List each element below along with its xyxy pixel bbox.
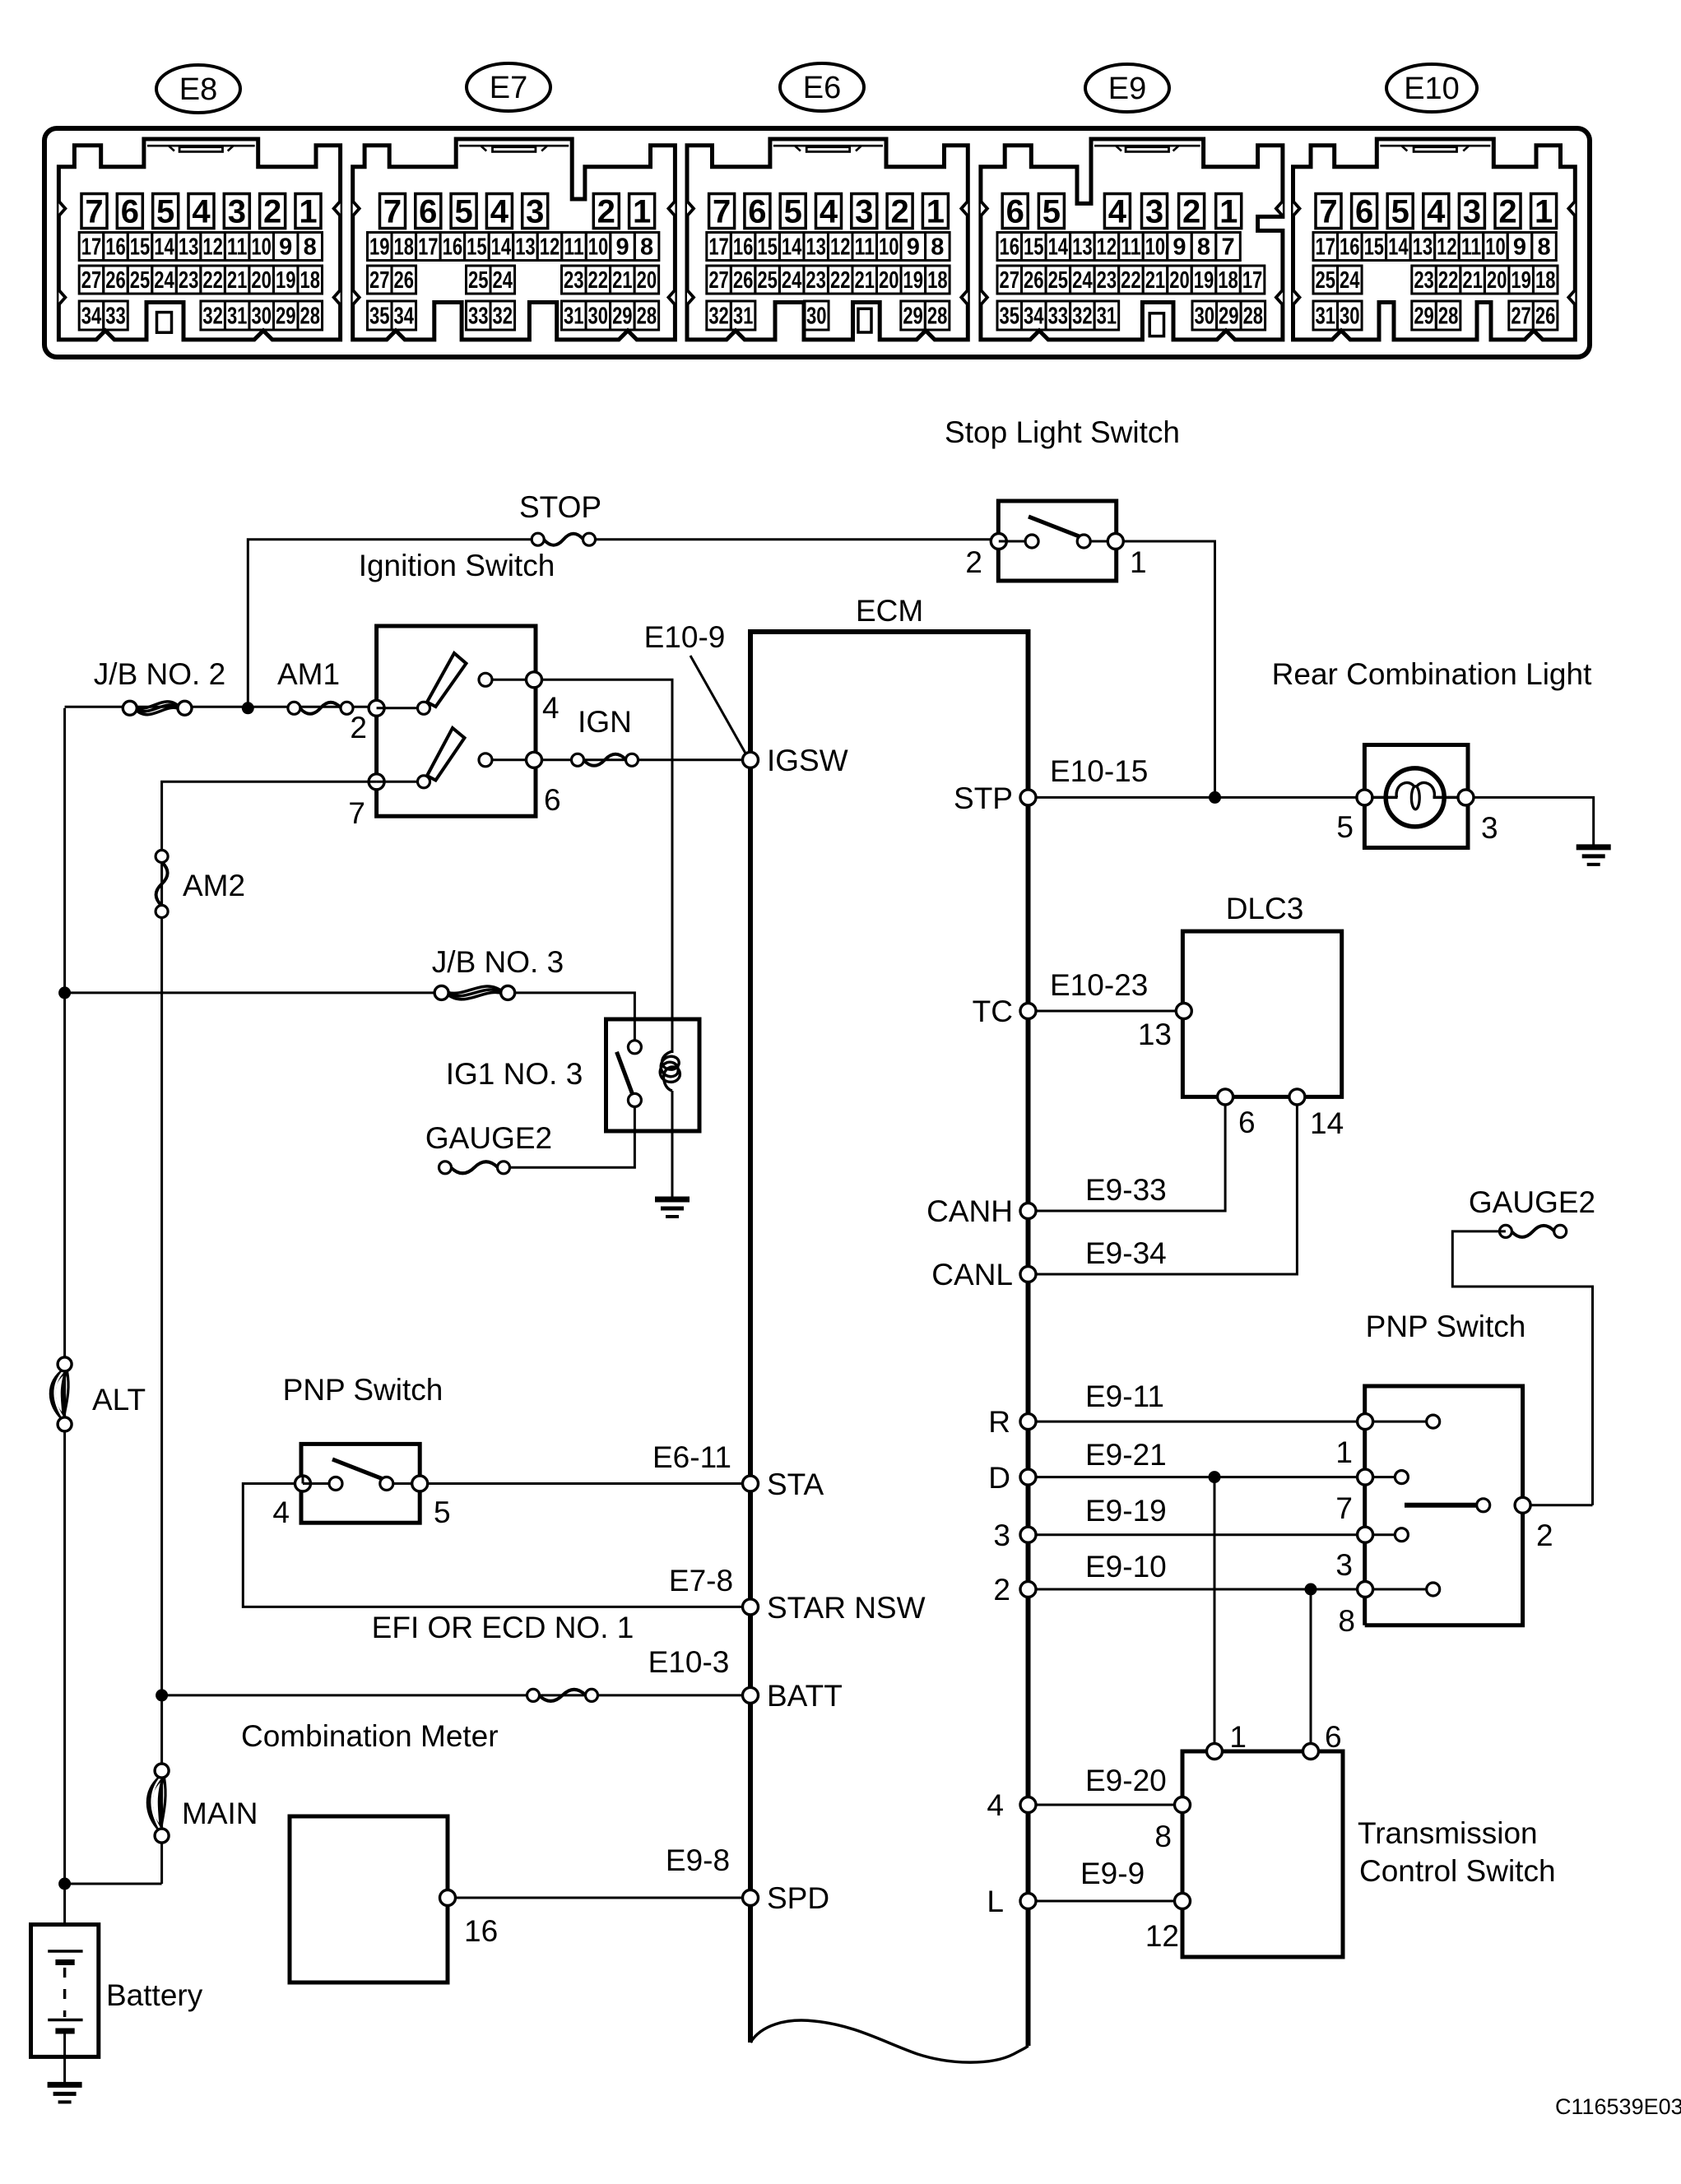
ECM bottom wavy break [750,2020,1029,2062]
svg-text:E10: E10 [1404,72,1460,106]
svg-text:4: 4 [820,194,838,230]
svg-text:CANL: CANL [931,1258,1013,1291]
svg-text:13: 13 [179,234,199,261]
ignition switch box [377,626,536,816]
svg-text:15: 15 [130,234,151,261]
svg-text:23: 23 [179,267,199,294]
svg-text:14: 14 [782,234,802,261]
svg-text:34: 34 [1024,304,1044,330]
svg-text:17: 17 [1316,234,1336,261]
svg-text:2: 2 [1536,1519,1553,1552]
svg-text:17: 17 [81,234,102,261]
DLC3 pin 13 terminal [1176,1004,1191,1019]
svg-text:26: 26 [105,267,126,294]
PNP left inner contact a [329,1477,342,1491]
connector block outer frame [44,128,1590,357]
svg-text:24: 24 [782,267,802,294]
svg-text:21: 21 [1462,267,1483,294]
lamp terminal 3 [1458,790,1474,805]
svg-text:3: 3 [228,194,246,230]
wire MAIN elbow to left feed [65,1883,162,1885]
svg-text:1: 1 [1130,545,1147,579]
svg-text:TC: TC [973,995,1013,1028]
svg-text:30: 30 [1340,304,1360,330]
svg-text:E10-3: E10-3 [648,1645,730,1679]
svg-text:8: 8 [304,234,317,261]
battery bottom lead [63,2031,66,2084]
svg-text:E9-33: E9-33 [1085,1173,1167,1207]
ECM terminal CANH [1020,1203,1036,1219]
ignition switch wire pin2 to pivot [377,707,419,709]
svg-text:13: 13 [515,234,536,261]
wire D [1036,1476,1365,1478]
svg-text:34: 34 [81,304,102,330]
svg-text:3: 3 [1335,1548,1353,1582]
ECM terminal STP [1020,790,1036,805]
svg-text:STAR NSW: STAR NSW [767,1591,926,1625]
svg-text:SPD: SPD [767,1881,829,1915]
svg-text:11: 11 [1461,234,1482,261]
svg-text:15: 15 [757,234,778,261]
DLC3 pin 6 terminal [1218,1089,1233,1105]
ECM terminal BATT [743,1687,759,1703]
svg-text:7: 7 [348,796,365,830]
svg-text:14: 14 [154,234,174,261]
TCS pin 1 terminal [1207,1744,1223,1760]
svg-text:33: 33 [1048,304,1069,330]
ignition switch wire contact to pin6 [492,758,527,761]
svg-text:13: 13 [1413,234,1433,261]
connector E8 pin grid [79,194,322,331]
ECM right edge [1026,632,1031,2046]
svg-text:12: 12 [1097,234,1117,261]
svg-text:16: 16 [105,234,126,261]
svg-text:18: 18 [1535,267,1556,294]
svg-text:30: 30 [588,304,609,330]
TCS pin 8 terminal [1175,1797,1191,1813]
rear combination light box [1364,745,1468,848]
connector E6 outline [687,139,968,340]
svg-text:E7-8: E7-8 [669,1564,733,1597]
svg-text:7: 7 [713,194,731,230]
svg-text:24: 24 [1072,267,1093,294]
pointer line E10-9 to IGSW [690,656,748,758]
PNP right common small contact [1477,1499,1490,1512]
fuse AM1 [288,702,353,714]
svg-text:27: 27 [369,267,390,294]
svg-text:9: 9 [279,234,292,261]
svg-text:7: 7 [1335,1491,1353,1525]
wire CANH [1036,1105,1225,1211]
svg-text:D: D [988,1461,1010,1495]
svg-text:IGN: IGN [578,705,632,739]
svg-text:6: 6 [419,194,437,230]
svg-text:7: 7 [1221,234,1234,261]
svg-text:4: 4 [987,1788,1004,1822]
junction at STOP branch [242,702,254,714]
svg-text:31: 31 [1316,304,1336,330]
junction BATT branch [156,1689,168,1701]
svg-text:5: 5 [454,194,472,230]
svg-text:32: 32 [493,304,513,330]
svg-text:AM1: AM1 [277,657,340,691]
svg-text:E9-21: E9-21 [1085,1438,1167,1472]
PNP right 3 small contact [1395,1528,1408,1542]
svg-text:18: 18 [927,267,948,294]
svg-text:31: 31 [564,304,584,330]
svg-text:27: 27 [81,267,102,294]
svg-text:E9-19: E9-19 [1085,1494,1167,1528]
svg-text:AM2: AM2 [183,869,245,902]
svg-text:GAUGE2: GAUGE2 [1469,1185,1595,1219]
fusible link ALT [52,1357,72,1431]
fusible link J/B NO.3 [434,985,515,999]
svg-text:12: 12 [830,234,851,261]
wire 3 [1036,1533,1365,1536]
PNP left wire 4 to contact [303,1482,329,1485]
wire 4 to TCS pin 8 [1036,1804,1182,1806]
fuse IGN [572,754,639,766]
battery plate long bottom [48,2019,82,2022]
wire STA [428,1482,744,1485]
svg-text:23: 23 [1414,267,1434,294]
svg-text:26: 26 [733,267,754,294]
wire L to TCS pin 12 [1036,1900,1182,1903]
svg-text:14: 14 [1310,1106,1344,1140]
svg-text:6: 6 [121,194,139,230]
ECM terminal IGSW [743,752,759,767]
svg-text:4: 4 [1108,194,1127,230]
svg-text:GAUGE2: GAUGE2 [425,1121,552,1155]
ignition switch pin 2 terminal [369,700,384,716]
svg-text:12: 12 [202,234,223,261]
connector E7 label oval [467,63,550,111]
svg-text:10: 10 [879,234,899,261]
fuse GAUGE2 right [1499,1225,1566,1237]
svg-text:17: 17 [1242,267,1263,294]
PNP right R small contact [1427,1415,1440,1428]
ignition switch contact AM1 pivot [418,702,430,714]
relay switch blade [617,1052,633,1094]
DLC3 box [1182,931,1341,1097]
svg-text:ECM: ECM [856,594,923,628]
wire J/B NO.3 [65,991,442,994]
stop switch inner contact b [1077,535,1090,548]
PNP left terminal 4 [295,1476,311,1491]
svg-text:26: 26 [394,267,415,294]
svg-text:25: 25 [1316,267,1336,294]
stop switch terminal 2 [991,534,1006,549]
battery box [31,1925,99,2057]
svg-text:8: 8 [640,234,653,261]
connector E7 pin grid [368,194,659,331]
svg-text:33: 33 [468,304,489,330]
svg-text:23: 23 [1097,267,1117,294]
svg-text:Combination Meter: Combination Meter [241,1719,499,1753]
PNP right common bar [1405,1503,1476,1508]
svg-text:Control Switch: Control Switch [1359,1854,1556,1888]
svg-text:L: L [987,1885,1004,1918]
wire 2 [1036,1588,1365,1591]
relay IG1 NO.3 box [606,1019,700,1131]
svg-text:30: 30 [1195,304,1215,330]
fusible link MAIN [149,1764,169,1843]
svg-text:21: 21 [612,267,633,294]
svg-text:19: 19 [1194,267,1214,294]
lamp filament right hump [1416,782,1434,797]
svg-text:27: 27 [1000,267,1020,294]
svg-text:ALT: ALT [92,1383,146,1417]
svg-text:16: 16 [1340,234,1360,261]
svg-text:C116539E03: C116539E03 [1555,2094,1681,2119]
svg-text:Battery: Battery [106,1978,203,2012]
svg-text:21: 21 [854,267,875,294]
svg-text:6: 6 [544,783,561,817]
svg-text:2: 2 [350,711,367,744]
svg-text:22: 22 [830,267,851,294]
PNP right 8 contact line [1372,1588,1426,1591]
svg-text:3: 3 [1463,194,1481,230]
svg-text:7: 7 [383,194,402,230]
svg-text:CANH: CANH [926,1194,1013,1228]
ECM terminal SPD [743,1890,759,1906]
connector E10 pin grid [1313,194,1558,331]
svg-text:1: 1 [633,194,651,230]
svg-text:3: 3 [1481,811,1498,845]
svg-text:9: 9 [1513,234,1526,261]
relay switch top contact [628,1041,641,1054]
svg-text:E9-20: E9-20 [1085,1764,1167,1797]
svg-text:20: 20 [879,267,899,294]
PNP left box [301,1444,420,1523]
ECM top edge [748,629,1031,634]
svg-text:4: 4 [192,194,211,230]
svg-text:4: 4 [272,1495,290,1529]
svg-text:35: 35 [369,304,390,330]
svg-text:PNP Switch: PNP Switch [283,1373,443,1407]
svg-text:25: 25 [130,267,151,294]
ECM terminal CANL [1020,1267,1036,1282]
lamp filament left hump [1396,782,1414,797]
svg-text:10: 10 [588,234,609,261]
svg-text:1: 1 [1229,1720,1247,1754]
TCS pin 12 terminal [1175,1894,1191,1909]
wire relay switch to GAUGE2 [504,1106,634,1167]
fuse AM2 [156,851,168,918]
svg-text:13: 13 [1138,1018,1172,1051]
svg-text:26: 26 [1535,304,1556,330]
svg-text:5: 5 [1042,194,1061,230]
svg-text:IGSW: IGSW [767,744,848,777]
junction J/B NO.3 branch [58,986,71,999]
PNP right terminal row R [1358,1414,1373,1430]
svg-text:13: 13 [1072,234,1093,261]
ECM terminal D [1020,1469,1036,1485]
battery plate short bottom [55,2029,74,2034]
svg-text:28: 28 [1243,304,1264,330]
svg-text:29: 29 [1414,304,1434,330]
svg-text:8: 8 [1338,1604,1355,1638]
ignition switch upper contact small circle [479,673,492,686]
wire pin2 to GAUGE2 riser [1530,1504,1593,1506]
PNP right D contact line [1372,1476,1395,1478]
svg-text:9: 9 [615,234,629,261]
relay coil wire down to ground [671,1091,674,1199]
svg-text:1: 1 [1335,1435,1353,1469]
ignition switch blade upper [427,653,467,707]
wire GAUGE2 to PNP pin 2 [1452,1231,1592,1505]
svg-text:6: 6 [1238,1106,1256,1139]
connector E9 label oval [1085,64,1169,112]
svg-text:35: 35 [1000,304,1020,330]
wire 2 to TCS pin 6 [1310,1589,1312,1751]
connector E9 pin grid [997,194,1265,331]
svg-text:20: 20 [1169,267,1190,294]
svg-text:E9-34: E9-34 [1085,1236,1167,1270]
svg-text:EFI OR ECD NO. 1: EFI OR ECD NO. 1 [372,1611,634,1644]
svg-text:20: 20 [251,267,272,294]
svg-text:4: 4 [490,194,509,230]
svg-text:E6-11: E6-11 [652,1440,731,1474]
svg-text:8: 8 [1197,234,1210,261]
svg-text:E9-11: E9-11 [1085,1379,1164,1413]
svg-text:11: 11 [854,234,875,261]
wire left feed vertical [63,708,66,1926]
wire pin4 to coil vertical [542,679,673,1053]
lamp terminal 5 [1357,790,1372,805]
svg-text:17: 17 [418,234,439,261]
PNP left blade [332,1459,385,1480]
svg-text:7: 7 [1319,194,1337,230]
wire SPD [456,1897,744,1899]
svg-text:6: 6 [1325,1720,1342,1754]
PNP right terminal row 3 [1358,1527,1373,1542]
svg-text:17: 17 [708,234,729,261]
PNP left terminal 5 [412,1476,428,1491]
PNP left wire contact to 5 [393,1482,413,1485]
svg-text:E9-9: E9-9 [1080,1857,1145,1890]
ignition switch pin 6 terminal [527,752,542,767]
svg-text:32: 32 [1072,304,1093,330]
wire R [1036,1421,1365,1423]
ignition switch wire pin7 to pivot [377,781,419,783]
svg-text:27: 27 [1511,304,1531,330]
wire STP [1036,796,1364,799]
svg-text:28: 28 [927,304,948,330]
svg-text:15: 15 [1024,234,1044,261]
svg-text:2: 2 [1182,194,1200,230]
wire J/B NO.3 right segment [508,993,634,1047]
PNP right box outline [1365,1386,1523,1625]
svg-text:J/B NO. 2: J/B NO. 2 [94,657,225,691]
stop switch blade [1029,517,1081,537]
svg-text:R: R [988,1405,1010,1439]
connector E8 outline [58,139,340,340]
svg-text:12: 12 [540,234,560,261]
svg-text:PNP Switch: PNP Switch [1366,1310,1526,1343]
lamp lead right [1433,796,1460,800]
junction 2 branch [1305,1584,1317,1596]
svg-text:12: 12 [1437,234,1457,261]
svg-text:23: 23 [564,267,584,294]
ground relay coil [655,1199,690,1217]
svg-text:6: 6 [748,194,766,230]
relay switch bottom contact [628,1093,641,1106]
svg-text:E10-9: E10-9 [644,620,726,654]
lamp filament center loop [1411,786,1419,809]
PNP right terminal row D [1358,1469,1373,1485]
junction D branch [1209,1471,1221,1483]
svg-text:J/B NO. 3: J/B NO. 3 [432,945,564,979]
svg-text:STP: STP [954,781,1013,815]
svg-text:2: 2 [965,545,982,579]
svg-text:20: 20 [637,267,657,294]
ECM terminal TC [1020,1004,1036,1019]
connector E10 outline [1293,139,1576,340]
battery plate long top [48,1950,82,1953]
svg-text:8: 8 [1537,234,1550,261]
svg-text:2: 2 [890,194,908,230]
PNP right R contact line [1372,1421,1426,1423]
TCS box [1182,1751,1343,1957]
svg-text:5: 5 [1391,194,1409,230]
connector E8 label oval [156,65,240,113]
svg-text:5: 5 [434,1495,451,1529]
svg-text:28: 28 [1438,304,1459,330]
svg-text:5: 5 [1336,810,1354,844]
svg-text:29: 29 [903,304,923,330]
ignition switch lower pivot [418,776,430,788]
svg-text:DLC3: DLC3 [1226,892,1304,925]
svg-text:29: 29 [276,304,296,330]
svg-text:2: 2 [993,1573,1010,1607]
svg-text:19: 19 [369,234,390,261]
svg-text:18: 18 [394,234,415,261]
svg-text:25: 25 [757,267,778,294]
ECM terminal STAR NSW [743,1599,759,1615]
svg-text:31: 31 [733,304,754,330]
PNP right 3 contact line [1372,1533,1395,1536]
PNP right 8 small contact [1427,1583,1440,1596]
svg-text:1: 1 [1219,194,1238,230]
stop light switch box [998,501,1116,581]
svg-text:6: 6 [1355,194,1373,230]
svg-text:11: 11 [564,234,584,261]
svg-text:16: 16 [733,234,754,261]
wire stop switch to STP junction [1123,541,1215,797]
wire D to TCS pin 1 [1214,1477,1216,1751]
svg-text:34: 34 [394,304,415,330]
junction MAIN join [58,1878,71,1890]
svg-text:2: 2 [1498,194,1516,230]
stop switch wire 2 to contact [999,540,1025,543]
svg-text:Stop Light Switch: Stop Light Switch [945,415,1180,449]
svg-text:9: 9 [1173,234,1186,261]
fuse STOP wire right segment [589,538,999,540]
svg-text:32: 32 [708,304,729,330]
ignition switch lower contact small circle [479,754,492,767]
svg-text:26: 26 [1024,267,1044,294]
svg-text:28: 28 [637,304,657,330]
wire TC [1036,1010,1184,1013]
svg-text:24: 24 [154,267,174,294]
svg-text:3: 3 [855,194,873,230]
svg-text:22: 22 [1438,267,1459,294]
svg-text:10: 10 [1145,234,1166,261]
svg-text:8: 8 [931,234,944,261]
svg-text:E10-23: E10-23 [1050,968,1148,1002]
svg-text:22: 22 [1121,267,1141,294]
